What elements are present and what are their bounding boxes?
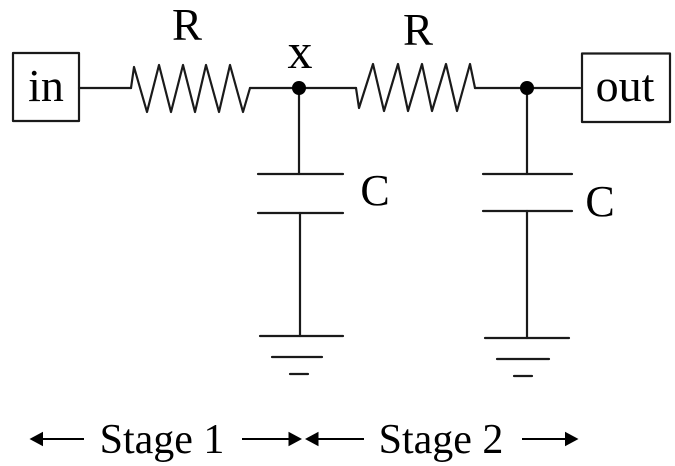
ground 1 (260, 336, 343, 374)
svg-text:out: out (596, 60, 655, 111)
node out junction dot (520, 81, 534, 95)
wire R2 to node out (475, 87, 527, 89)
capacitor C1 bottom plate (258, 212, 343, 214)
resistor R2 (356, 64, 475, 111)
svg-text:in: in (28, 60, 64, 111)
wire C2 to ground (526, 211, 528, 338)
wire R1 to node x (250, 87, 299, 89)
in box (13, 53, 79, 121)
svg-text:Stage 2: Stage 2 (379, 417, 504, 463)
resistor R1 (131, 65, 250, 112)
node x junction dot (292, 81, 306, 95)
ground 2 (485, 338, 569, 376)
svg-text:C: C (585, 177, 614, 226)
wire in to R1 (79, 87, 131, 89)
svg-text:R: R (403, 5, 433, 55)
arrow stage1 right (242, 438, 289, 440)
svg-text:C: C (360, 166, 389, 215)
capacitor C1 top plate (258, 173, 343, 175)
arrow stage1 left (41, 438, 84, 440)
svg-text:x: x (288, 23, 313, 79)
svg-text:R: R (172, 0, 202, 50)
wire node x to R2 (299, 87, 356, 89)
arrow stage2 left (318, 438, 364, 440)
arrow stage2 right (522, 438, 566, 440)
wire C1 to ground (299, 213, 301, 336)
out box (582, 54, 670, 123)
wire node out to out box (527, 87, 580, 89)
capacitor C2 top plate (483, 173, 572, 175)
stage arrows (30, 432, 579, 446)
svg-text:Stage 1: Stage 1 (100, 417, 225, 463)
wire node x down to C1 (298, 88, 300, 174)
wire node out down to C2 (526, 88, 528, 174)
capacitor C2 bottom plate (483, 210, 572, 212)
